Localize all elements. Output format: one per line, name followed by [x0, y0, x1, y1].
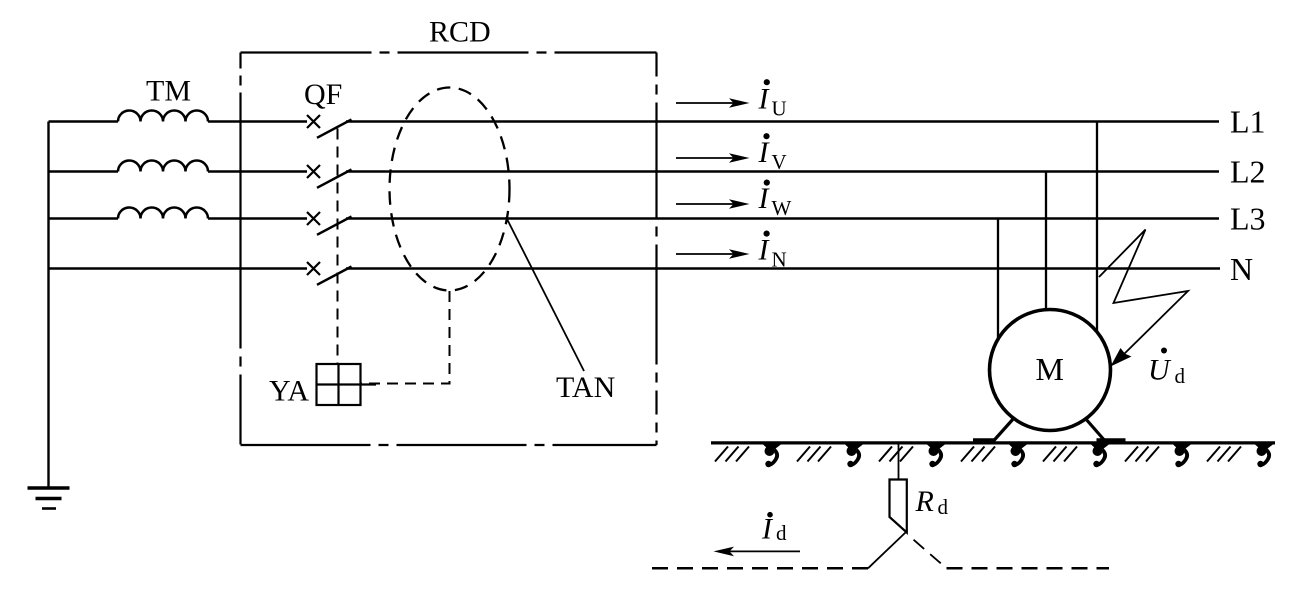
wire line L2 segment right — [346, 170, 1219, 173]
svg-text:U: U — [1148, 354, 1172, 387]
wire drop from L1 to motor — [1096, 122, 1098, 333]
wire line L3 segment mid — [208, 217, 307, 220]
svg-text:d: d — [938, 495, 949, 519]
svg-text:M: M — [1036, 351, 1064, 387]
earth hatching group 7 — [1207, 447, 1241, 462]
ground current spread V right branch dashed — [908, 535, 947, 569]
RCD enclosure dash-dot box — [241, 53, 657, 446]
transformer TM coil on L3 — [118, 208, 208, 219]
breaker QF pole 3 contact x — [307, 212, 320, 225]
current arrow I_N — [676, 231, 787, 272]
svg-text:R: R — [915, 485, 934, 518]
wire drop from L3 to motor — [997, 219, 999, 339]
earth soil curl 3 — [927, 444, 946, 467]
wire line L3 segment left — [49, 217, 119, 220]
wire line N segment left — [49, 267, 308, 270]
earth hatching group 3 — [879, 447, 913, 462]
wire line L1 segment left — [49, 120, 119, 123]
ground current spread V left branch — [868, 533, 906, 569]
transformer TM coil on L2 — [118, 161, 208, 172]
svg-text:TAN: TAN — [556, 371, 615, 404]
svg-text:d: d — [776, 521, 787, 545]
fault lightning arrow to motor (U_d) — [1099, 230, 1188, 360]
motor left leg — [993, 418, 1014, 442]
motor left foot plate — [973, 438, 995, 443]
svg-text:N: N — [1230, 251, 1253, 287]
earth soil curl 7 — [1255, 444, 1274, 467]
earth soil curl 6 — [1173, 444, 1192, 467]
earth soil curl 4 — [1009, 444, 1028, 467]
breaker QF pole 4 blade — [317, 267, 352, 285]
leader line TAN — [506, 217, 584, 371]
svg-text:YA: YA — [269, 375, 309, 408]
label U_d — [1148, 348, 1186, 389]
earth soil curl 5 — [1091, 444, 1110, 467]
wire line L1 segment mid (coil to breaker) — [208, 120, 307, 123]
svg-text:N: N — [772, 247, 787, 271]
earth hatching group 5 — [1043, 447, 1077, 462]
svg-text:L3: L3 — [1230, 201, 1266, 237]
wire line N segment right — [346, 267, 1220, 270]
earth soil curl 1 — [763, 444, 782, 467]
wire line L2 segment mid — [208, 170, 307, 173]
svg-text:W: W — [772, 196, 792, 220]
current arrow I_d — [714, 512, 801, 556]
toroid TAN dashed ellipse — [390, 88, 510, 291]
breaker QF pole 3 blade — [317, 217, 352, 235]
dashed ground-current line right — [947, 567, 1110, 570]
motor right leg — [1085, 418, 1106, 442]
svg-text:QF: QF — [304, 78, 342, 111]
earth hatching group 1 — [715, 447, 749, 462]
trip coil YA box — [317, 364, 377, 405]
earth hatching group 4 — [961, 447, 995, 462]
ground (left earth symbol) — [28, 488, 70, 509]
wire line L2 segment left — [49, 170, 119, 173]
breaker QF pole 4 contact x — [307, 262, 320, 275]
earth soil curl 2 — [845, 444, 864, 467]
current arrow I_W — [676, 180, 792, 221]
svg-text:TM: TM — [146, 75, 191, 108]
motor M circle — [990, 310, 1111, 431]
breaker QF pole 1 contact x — [307, 115, 320, 128]
dashed wire toroid to trip coil — [361, 291, 450, 384]
resistor R_d — [890, 480, 907, 533]
dashed ground-current line left — [648, 567, 868, 570]
svg-text:d: d — [1175, 364, 1186, 388]
motor right foot plate — [1097, 438, 1126, 443]
breaker QF pole 1 blade — [317, 120, 352, 138]
earth surface line — [711, 441, 1275, 444]
earth hatching group 2 — [797, 447, 831, 462]
breaker QF pole 2 contact x — [307, 165, 320, 178]
wire earth to R_d — [898, 444, 900, 480]
wire left bus vertical — [47, 122, 49, 488]
breaker linkage dashed — [337, 129, 339, 365]
breaker QF pole 2 blade — [317, 170, 352, 188]
wire line L1 segment right — [346, 120, 1219, 123]
earth hatching group 6 — [1125, 447, 1159, 462]
current arrow I_U — [676, 79, 787, 120]
label R_d — [915, 485, 949, 519]
svg-text:L2: L2 — [1230, 154, 1266, 190]
transformer TM coil on L1 — [118, 111, 208, 122]
wire line L3 segment right — [346, 217, 1219, 220]
svg-text:L1: L1 — [1230, 104, 1266, 140]
svg-text:U: U — [772, 96, 787, 120]
current arrow I_V — [676, 133, 787, 174]
svg-text:V: V — [772, 150, 787, 174]
svg-text:RCD: RCD — [429, 16, 491, 49]
wire drop from L2 to motor — [1045, 172, 1047, 311]
